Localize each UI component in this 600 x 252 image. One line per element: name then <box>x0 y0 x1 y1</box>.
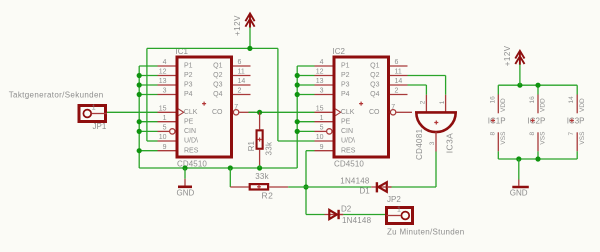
svg-text:Q3: Q3 <box>370 82 379 89</box>
svg-text:Q1: Q1 <box>213 63 222 70</box>
svg-text:Q1: Q1 <box>370 63 379 70</box>
svg-text:16: 16 <box>529 96 536 104</box>
svg-text:IC3A: IC3A <box>444 133 454 154</box>
svg-text:P3: P3 <box>341 82 350 89</box>
svg-text:8: 8 <box>529 132 536 136</box>
svg-text:5: 5 <box>320 125 324 132</box>
svg-text:2: 2 <box>420 100 427 104</box>
svg-text:GND: GND <box>510 188 528 197</box>
svg-text:Zu Minuten/Stunden: Zu Minuten/Stunden <box>387 227 464 236</box>
svg-text:7: 7 <box>568 132 575 136</box>
svg-text:IC1P: IC1P <box>488 117 506 126</box>
svg-text:PE: PE <box>341 118 351 125</box>
svg-text:CD4510: CD4510 <box>177 160 207 169</box>
svg-text:33k: 33k <box>264 141 273 155</box>
svg-text:14: 14 <box>395 78 403 85</box>
svg-text:7: 7 <box>234 104 238 111</box>
svg-text:P2: P2 <box>184 72 193 79</box>
svg-text:11: 11 <box>238 69 245 76</box>
svg-text:1: 1 <box>397 207 401 214</box>
svg-text:CIN: CIN <box>341 128 353 135</box>
svg-text:CO: CO <box>212 109 223 116</box>
svg-text:D1: D1 <box>360 187 371 196</box>
svg-text:P4: P4 <box>341 91 350 98</box>
svg-text:R1: R1 <box>247 141 256 152</box>
svg-text:6: 6 <box>238 59 242 66</box>
svg-text:16: 16 <box>489 96 496 104</box>
svg-text:13: 13 <box>316 78 324 85</box>
svg-text:U/D\: U/D\ <box>341 138 355 145</box>
svg-text:13: 13 <box>159 78 167 85</box>
svg-text:+12V: +12V <box>503 45 512 66</box>
svg-text:3: 3 <box>429 141 436 145</box>
svg-text:RES: RES <box>184 147 199 154</box>
svg-text:VDD: VDD <box>540 98 547 112</box>
svg-text:14: 14 <box>568 96 575 104</box>
svg-text:4: 4 <box>163 59 167 66</box>
svg-text:10: 10 <box>159 134 167 141</box>
svg-text:12: 12 <box>159 69 167 76</box>
svg-text:IC2: IC2 <box>333 47 346 56</box>
svg-text:RES: RES <box>341 147 356 154</box>
svg-text:JP1: JP1 <box>93 122 107 131</box>
svg-text:1N4148: 1N4148 <box>342 216 372 225</box>
svg-text:14: 14 <box>238 78 246 85</box>
svg-text:1: 1 <box>92 105 96 112</box>
svg-text:Taktgenerator/Sekunden: Taktgenerator/Sekunden <box>9 90 104 99</box>
svg-text:3: 3 <box>163 88 167 95</box>
svg-text:Q2: Q2 <box>213 72 222 79</box>
svg-text:VSS: VSS <box>579 131 586 145</box>
svg-text:9: 9 <box>163 144 167 151</box>
svg-text:R2: R2 <box>262 191 274 201</box>
svg-text:1: 1 <box>439 100 446 104</box>
svg-text:VSS: VSS <box>540 131 547 145</box>
svg-text:P1: P1 <box>341 63 350 70</box>
svg-text:U/D\: U/D\ <box>184 138 198 145</box>
svg-text:CD4081: CD4081 <box>415 128 424 160</box>
svg-text:P3: P3 <box>184 82 193 89</box>
svg-text:2: 2 <box>395 88 399 95</box>
svg-text:33k: 33k <box>255 172 269 181</box>
svg-text:Q4: Q4 <box>370 91 379 98</box>
svg-text:P2: P2 <box>341 72 350 79</box>
svg-text:1: 1 <box>163 115 167 122</box>
svg-text:P4: P4 <box>184 91 193 98</box>
svg-text:IC2P: IC2P <box>528 117 546 126</box>
svg-text:CLK: CLK <box>341 109 355 116</box>
svg-text:IC3P: IC3P <box>567 117 585 126</box>
svg-text:1N4148: 1N4148 <box>340 176 370 185</box>
svg-text:9: 9 <box>320 144 324 151</box>
svg-text:JP2: JP2 <box>387 195 401 204</box>
svg-text:CO: CO <box>369 109 380 116</box>
svg-text:CLK: CLK <box>184 109 198 116</box>
svg-text:CD4510: CD4510 <box>334 160 364 169</box>
svg-text:2: 2 <box>238 88 242 95</box>
svg-text:Q3: Q3 <box>213 82 222 89</box>
svg-text:D2: D2 <box>341 204 352 213</box>
svg-text:12: 12 <box>316 69 324 76</box>
svg-text:7: 7 <box>391 104 395 111</box>
svg-text:5: 5 <box>163 125 167 132</box>
svg-text:10: 10 <box>316 134 324 141</box>
svg-text:P1: P1 <box>184 63 193 70</box>
svg-text:15: 15 <box>159 106 167 113</box>
svg-text:CIN: CIN <box>184 128 196 135</box>
svg-text:3: 3 <box>320 88 324 95</box>
svg-text:15: 15 <box>316 106 324 113</box>
svg-text:11: 11 <box>395 69 402 76</box>
svg-text:PE: PE <box>184 118 194 125</box>
svg-text:4: 4 <box>320 59 324 66</box>
svg-text:GND: GND <box>177 188 195 197</box>
svg-text:8: 8 <box>489 132 496 136</box>
svg-text:6: 6 <box>395 59 399 66</box>
svg-text:VDD: VDD <box>500 98 507 112</box>
svg-text:VDD: VDD <box>579 98 586 112</box>
svg-text:Q4: Q4 <box>213 91 222 98</box>
svg-text:VSS: VSS <box>500 131 507 145</box>
svg-text:+12V: +12V <box>233 15 242 36</box>
svg-text:1: 1 <box>320 115 324 122</box>
svg-text:Q2: Q2 <box>370 72 379 79</box>
